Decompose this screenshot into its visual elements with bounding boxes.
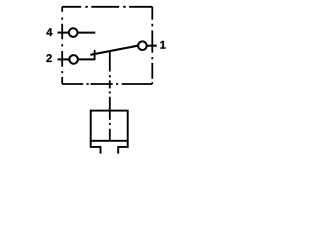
actuator body box — [91, 111, 128, 141]
actuator right skirt — [118, 141, 128, 154]
actuator axis dash-dot inside box — [109, 111, 111, 141]
terminal 4 wire right — [78, 32, 96, 34]
terminal 1 circle — [138, 41, 147, 50]
plunger link solid segment — [109, 51, 111, 72]
label 4 — [46, 28, 52, 36]
plunger link dash-dot segment — [109, 75, 111, 110]
terminal 1 wire right — [147, 45, 157, 47]
terminal 2 wire right — [78, 58, 94, 60]
terminal 4 circle — [69, 28, 78, 37]
switch lever — [90, 46, 137, 55]
terminal 2 circle — [69, 55, 78, 64]
label 2 — [46, 54, 51, 62]
terminal 2 stub left — [58, 58, 70, 60]
boundary left edge — [61, 7, 63, 84]
actuator left skirt — [91, 141, 101, 154]
terminal 4 stub left — [58, 32, 69, 34]
enclosure dash-dot boundary box — [62, 7, 152, 84]
boundary bottom edge — [62, 83, 152, 85]
fixed contact tick — [94, 50, 96, 60]
boundary right edge — [151, 7, 153, 84]
boundary top edge — [62, 6, 152, 8]
label 1 — [160, 41, 165, 49]
